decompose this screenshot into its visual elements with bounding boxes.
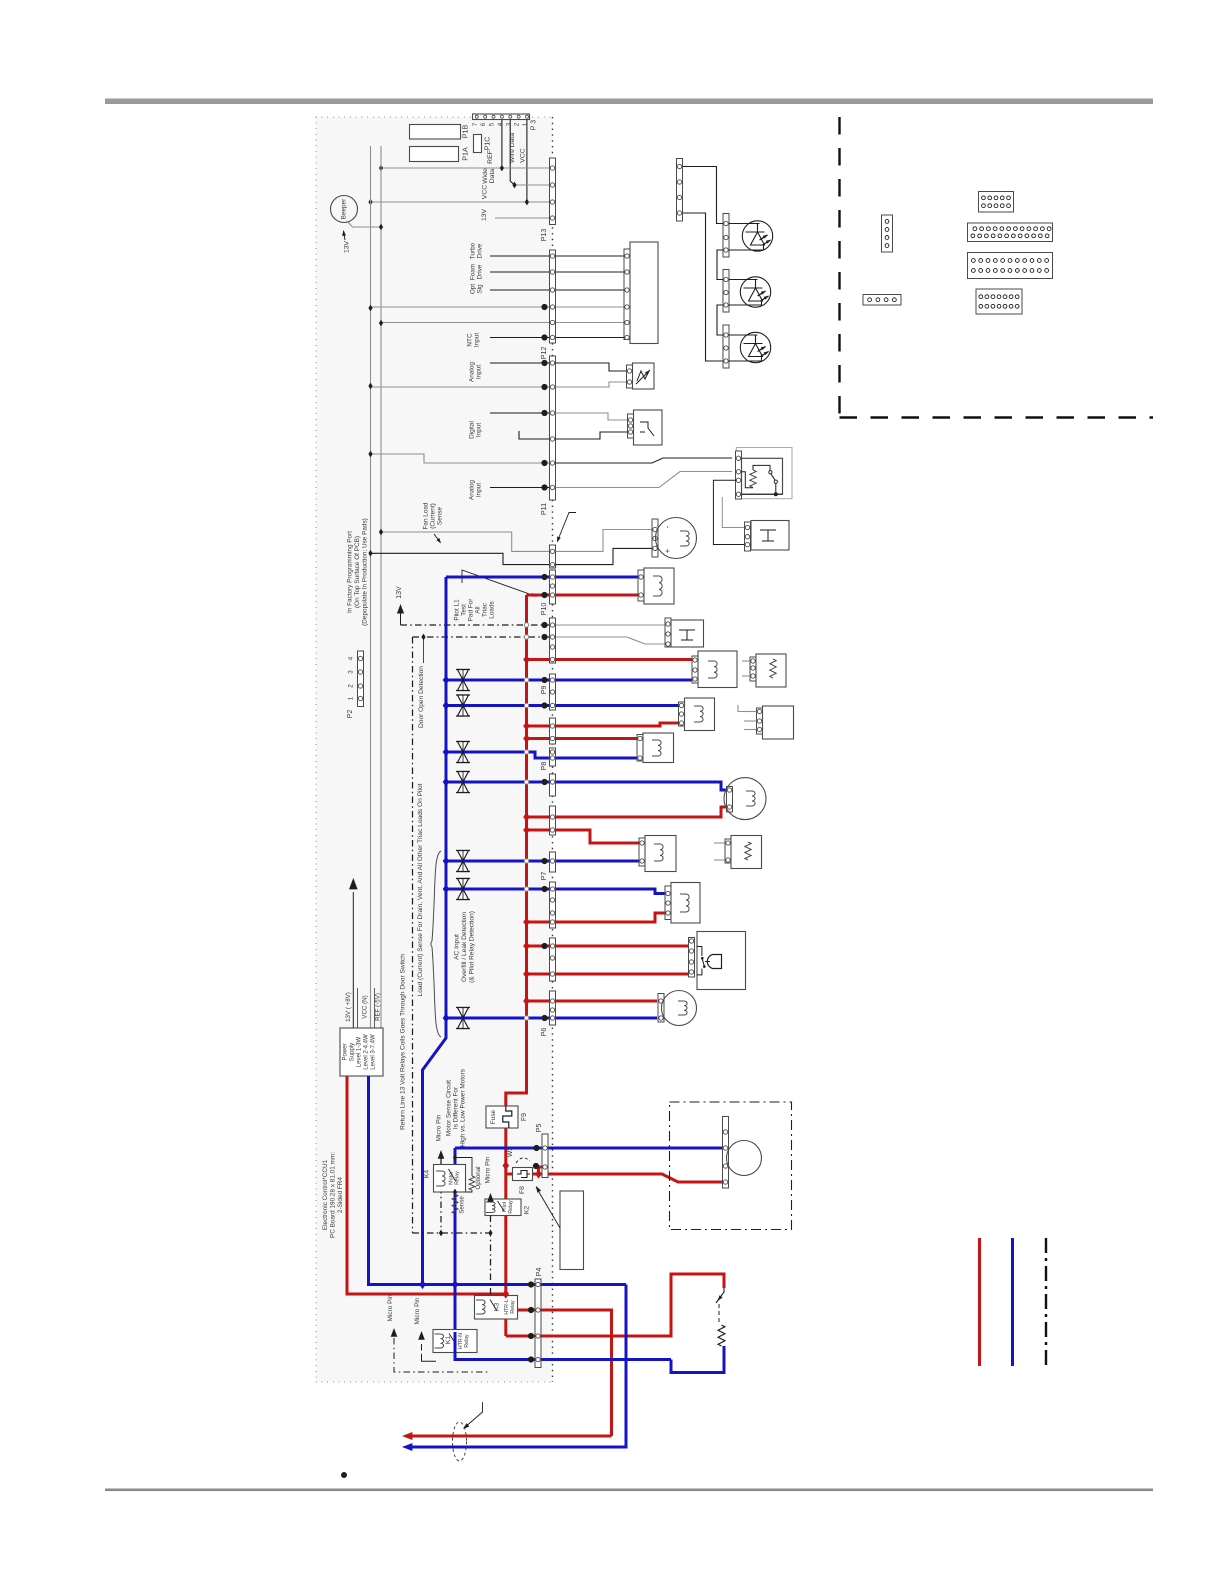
wire P4 pin3 to heater: [669, 1274, 724, 1336]
legend red line: [978, 1238, 981, 1366]
overfill pressure switch outer box: [736, 448, 792, 499]
wire VCC to P11 pin2: [371, 386, 550, 388]
wire Opt Sig row: [490, 289, 624, 291]
svg-text:VCC: VCC: [482, 185, 489, 199]
svg-text:13V: 13V: [396, 586, 403, 599]
svg-text:Test: Test: [461, 604, 468, 616]
svg-text:Input: Input: [476, 423, 483, 437]
svg-text:Fan Load: Fan Load: [423, 502, 430, 529]
svg-text:P4: P4: [534, 1268, 543, 1277]
wire overfill to level connector a: [713, 480, 744, 544]
dash-dot vertical micro pin line: [412, 637, 414, 1233]
overfill switch connector: [736, 451, 742, 499]
relay K2 Pilot Relay: [485, 1199, 521, 1216]
valve 6 connector: [665, 886, 671, 920]
beeper: [331, 196, 358, 223]
wire VCC to fan connector b: [371, 553, 550, 564]
svg-text:(Depopulate In Production; Use: (Depopulate In Production; Use Pads): [362, 518, 369, 626]
svg-text:Wire Data: Wire Data: [509, 133, 516, 163]
wire J pin4 to LED3: [683, 213, 723, 361]
svg-text:High vs. Low Power Motors: High vs. Low Power Motors: [460, 1069, 467, 1147]
triac T1: [456, 670, 470, 691]
svg-text:Sense: Sense: [437, 506, 444, 525]
wire analog input row 1: [490, 362, 550, 364]
red node K3: [503, 1289, 510, 1298]
legend dashed frame: [838, 117, 840, 418]
board edge dotted line (connector column): [552, 117, 554, 1382]
wire power supply red to K3: [347, 1076, 506, 1294]
curly brace triac loads: [431, 851, 441, 1037]
svg-text:1: 1: [348, 696, 355, 700]
svg-text:7: 7: [472, 122, 479, 126]
svg-text:Optional: Optional: [475, 1166, 482, 1189]
svg-text:P 3: P 3: [531, 120, 538, 130]
note box: [560, 1191, 584, 1270]
svg-text:P9: P9: [539, 686, 548, 695]
blue neutral bus: [423, 577, 447, 1285]
svg-text:(On Top Surface Of PCB): (On Top Surface Of PCB): [354, 536, 361, 608]
node junction P3-1: [525, 199, 529, 206]
wire blue row 889 with triac: [446, 889, 665, 894]
optional resistor branch: [455, 1158, 472, 1177]
level sensor lower box: [751, 521, 789, 551]
power supply box: [340, 1028, 383, 1076]
svg-text:Analog: Analog: [469, 362, 476, 382]
wire VCC to P12 pin4: [371, 306, 625, 308]
svg-text:VCC (N): VCC (N): [362, 995, 369, 1018]
wire P4 pin4 blue row: [455, 1358, 671, 1361]
triac T5: [456, 851, 470, 872]
svg-text:13V ( +8V): 13V ( +8V): [345, 992, 352, 1022]
valve 6 (coil): [671, 883, 700, 924]
svg-text:Input: Input: [476, 365, 483, 379]
level sensor connector: [665, 618, 671, 647]
blue exit wire: [412, 1285, 626, 1448]
sense resistor: [452, 1194, 458, 1214]
wire fan connector to fan motor a: [556, 530, 653, 552]
svg-text:Opt: Opt: [470, 284, 477, 295]
wire P10 blue row: [446, 576, 638, 579]
svg-text:Drive: Drive: [477, 243, 484, 258]
fan motor (+/-): [656, 518, 697, 559]
wire fan connector to fan motor b: [556, 548, 653, 564]
svg-text:Sense: Sense: [459, 1196, 466, 1214]
alt valve 2 box: [763, 706, 794, 739]
wire blue row 1018 with triac: [446, 1017, 657, 1020]
svg-text:Digital: Digital: [469, 421, 476, 439]
drain pump connector: [727, 787, 733, 813]
leader pilot L1: [462, 570, 535, 596]
dash-dot door switch row 1: [401, 624, 550, 626]
overfill resistor: [750, 470, 756, 488]
13V supply arrow line: [352, 892, 354, 1028]
level sensor box: [671, 620, 704, 647]
dash-dot micro pin line K2: [487, 1193, 494, 1202]
svg-text:K1: K1: [445, 1336, 452, 1345]
wire power supply blue to P4 pin1: [369, 1076, 627, 1285]
svg-text:PC Board 190.28 x 81.01 mm:: PC Board 190.28 x 81.01 mm:: [330, 1152, 337, 1238]
footnote bullet: [341, 1472, 347, 1478]
wire red row 738: [527, 737, 638, 740]
svg-text:Supply: Supply: [350, 1043, 356, 1061]
svg-text:Triac: Triac: [482, 602, 489, 617]
svg-text:+: +: [663, 548, 672, 553]
wire J pin1 to LED1: [683, 167, 723, 224]
svg-text:Sig: Sig: [477, 284, 484, 294]
wire P3 pin1 to node: [526, 120, 528, 200]
svg-text:Return Line 13 Volt Relays Coi: Return Line 13 Volt Relays Coils Goes Th…: [400, 954, 407, 1130]
svg-text:4: 4: [348, 656, 355, 660]
wire blue row 752 with triac: [446, 752, 637, 758]
svg-text:Micro Pin: Micro Pin: [414, 1297, 421, 1324]
connector view 4-pin vertical: [882, 215, 893, 252]
connector view 4-pin horizontal: [863, 295, 901, 306]
svg-text:2: 2: [514, 122, 521, 126]
svg-text:K3: K3: [494, 1303, 501, 1312]
svg-text:P7: P7: [539, 872, 548, 881]
blue wire P5 row: [455, 1147, 723, 1150]
svg-text:Foam: Foam: [470, 264, 477, 280]
connector P1B: [410, 125, 461, 140]
pressure switch box: [634, 410, 663, 445]
LED 1 with connector: [723, 214, 729, 258]
svg-text:Input: Input: [474, 333, 481, 347]
svg-text:P1C: P1C: [483, 137, 492, 151]
wire VCC-WideData row to P13 pin1: [381, 167, 550, 169]
wire P11 to pressure switch b: [556, 432, 629, 439]
wire blue row 680 with triac: [446, 679, 692, 682]
red wire F8 to P5 and motor: [533, 1167, 546, 1174]
wire blue row 861 with triac: [446, 860, 639, 863]
valve 3 (coil): [685, 698, 715, 731]
svg-text:Door Open Detection: Door Open Detection: [418, 666, 425, 728]
wire row to P13 pin3: [371, 201, 550, 203]
alt valve 1 connector: [750, 657, 756, 681]
svg-text:Relay: Relay: [464, 1334, 470, 1348]
node junction P3-3: [500, 165, 504, 172]
fuse F8: [506, 1173, 513, 1176]
fan pad connector: [550, 545, 556, 568]
svg-text:Level 2-4.4W: Level 2-4.4W: [364, 1034, 370, 1070]
svg-text:Micro Pin: Micro Pin: [436, 1114, 443, 1141]
wire blue row 782 with triac: [446, 782, 726, 790]
leader cable marker: [464, 1402, 483, 1428]
svg-text:Overfill / Leak Detection: Overfill / Leak Detection: [461, 912, 468, 982]
cable marker dashed ellipse: [453, 1422, 467, 1461]
wire NTC row: [490, 337, 624, 339]
svg-text:Analog: Analog: [469, 480, 476, 500]
svg-text:3: 3: [348, 670, 355, 674]
motor unit circle: [727, 1141, 762, 1176]
wire blue row 705 with triac: [446, 704, 681, 707]
svg-text:P10: P10: [539, 603, 548, 616]
wire P3 pin2 to node: [510, 120, 514, 185]
CCU board outline (Electronic Control CCU1, dotted): [316, 117, 553, 1382]
alt valve 3 box with resistor: [731, 836, 762, 869]
wire P3 pin3 to node: [501, 120, 503, 165]
svg-text:P13: P13: [539, 229, 548, 242]
node door open detection: [421, 634, 425, 641]
svg-text:P12: P12: [539, 347, 548, 360]
svg-text:Fuse: Fuse: [490, 1109, 497, 1124]
svg-text:Turbo: Turbo: [470, 242, 477, 259]
heater resistor: [718, 1325, 725, 1346]
wire REF to fan connector a: [381, 532, 550, 551]
svg-text:13V: 13V: [481, 208, 488, 221]
alt valve 3 connector: [725, 839, 731, 863]
valve 2 (water valve coil): [698, 651, 737, 688]
wire red row 974: [527, 973, 690, 976]
wire Foam Drive row: [490, 271, 624, 273]
crossing rings on red bus: [524, 623, 528, 627]
wire red row 1001: [527, 1000, 658, 1003]
valve 1 connector: [638, 570, 644, 601]
svg-text:Relay: Relay: [455, 1171, 461, 1185]
wire P11 pin4 row: [519, 431, 550, 439]
svg-text:Micro Pin: Micro Pin: [485, 1156, 492, 1183]
triac T3: [456, 742, 470, 763]
connector J LED header: [677, 159, 683, 222]
connector view 11x2: [968, 253, 1053, 279]
svg-text:K2: K2: [524, 1206, 531, 1215]
pressure switch connector: [628, 414, 634, 438]
wire red row 817: [527, 807, 727, 817]
svg-text:2-Sided FR4: 2-Sided FR4: [337, 1177, 344, 1213]
wire analog row 2: [490, 487, 550, 489]
svg-text:Is Different For: Is Different For: [453, 1086, 460, 1129]
blue relay chain through K4 K1: [454, 1148, 457, 1332]
wire red row 946 AC input: [527, 945, 690, 948]
svg-text:2: 2: [348, 684, 355, 688]
triac T7: [456, 1008, 470, 1029]
AC input connector: [689, 938, 695, 978]
svg-text:REF: REF: [487, 150, 494, 164]
REF rail (gray bus 2): [380, 146, 382, 1028]
wire P11 to overfill switch b: [556, 472, 733, 488]
valve 2 connector: [692, 656, 698, 683]
svg-text:6: 6: [480, 122, 487, 126]
svg-text:In Factory Programming Port: In Factory Programming Port: [347, 531, 354, 613]
top gray rule: [105, 99, 1153, 105]
motor unit dash-dot box: [670, 1102, 792, 1230]
svg-text:P6: P6: [539, 1028, 548, 1037]
valve 5 connector: [639, 838, 645, 866]
pressure pump motor: [662, 991, 697, 1026]
svg-text:5: 5: [489, 122, 496, 126]
alt valve 1 box with resistor: [756, 654, 786, 687]
valve 4 connector: [637, 735, 643, 762]
svg-text:P8: P8: [539, 762, 548, 771]
svg-text:Relay: Relay: [508, 1200, 514, 1214]
fuse F9: [486, 1106, 518, 1128]
svg-text:K4: K4: [424, 1170, 431, 1179]
connector P1C: [474, 135, 482, 153]
wire P10 red row: [527, 594, 639, 597]
connector P3 header: [473, 114, 530, 120]
wire 13V to P13 pin4: [495, 217, 550, 219]
wire P11 to overfill switch a: [556, 458, 733, 463]
drain pump motor: [724, 778, 766, 820]
leader fan load: [434, 534, 440, 542]
P4 connector strip: [535, 1279, 541, 1368]
wire beeper to REF rail: [347, 221, 381, 227]
svg-text:W2: W2: [507, 1147, 514, 1157]
red junction at W2: [503, 1161, 510, 1170]
valve 3 connector: [679, 702, 685, 726]
svg-text:13V: 13V: [344, 240, 351, 253]
svg-text:Micro Pin: Micro Pin: [387, 1294, 394, 1321]
legend dash-dot line: [1045, 1238, 1047, 1366]
wire digital input row: [490, 412, 550, 414]
wire LED2 to LED3: [717, 305, 723, 335]
dash-dot level row 1 gray: [556, 624, 667, 626]
svg-text:Pilot L1: Pilot L1: [454, 599, 461, 621]
svg-text:Wide: Wide: [482, 168, 489, 184]
connector P1A: [410, 147, 459, 162]
power supply label columns: [357, 988, 359, 1028]
svg-text:F9: F9: [521, 1113, 528, 1121]
wire P11 to pressure switch a: [556, 413, 629, 420]
red line bus: [506, 595, 527, 1336]
user interface connector: [624, 249, 630, 340]
overfill switch inner box: [742, 458, 783, 494]
svg-text:Level 1-3W: Level 1-3W: [357, 1036, 363, 1067]
heater blue return: [671, 1346, 724, 1373]
pressure pump connector: [658, 994, 664, 1023]
svg-text:Drive: Drive: [477, 264, 484, 279]
triac T6: [456, 879, 470, 900]
wire P11 to thermistor a: [556, 363, 629, 371]
wire LED1 to LED2: [717, 250, 723, 280]
svg-text:P1B: P1B: [461, 125, 470, 139]
wire red bus to P4 pin3: [506, 1335, 669, 1338]
svg-text:1: 1: [522, 122, 529, 126]
svg-text:REF (-5V): REF (-5V): [375, 993, 382, 1021]
leader note to F8: [536, 1187, 560, 1228]
svg-text:Beeper: Beeper: [341, 198, 348, 219]
svg-text:P11: P11: [539, 503, 548, 515]
alt valve 2 connector: [757, 708, 763, 734]
thermistor connector: [627, 365, 633, 388]
wire overfill to level connector b: [722, 497, 744, 528]
svg-text:-: -: [663, 525, 672, 528]
triac T4: [456, 772, 470, 793]
relay K3 HTR-L: [475, 1296, 518, 1320]
valve 5 (coil): [645, 836, 676, 872]
wire VCC jog to P11 pin5: [371, 454, 550, 463]
svg-text:Input: Input: [476, 483, 483, 497]
relay K1 HTR-N: [433, 1330, 477, 1353]
fan motor connector: [652, 519, 658, 557]
leader test pad: [558, 513, 577, 542]
dash-dot micro pin line K4: [438, 1150, 445, 1159]
wire Turbo Drive row: [490, 255, 624, 257]
wire red row 726: [527, 723, 682, 726]
wire P11 to thermistor b: [556, 382, 629, 387]
connector P12: [550, 250, 556, 343]
red exit wire: [412, 1435, 612, 1438]
dash-dot door switch row 2: [413, 636, 550, 638]
valve 1 (water valve coil): [644, 568, 674, 604]
svg-text:F8: F8: [519, 1186, 526, 1194]
thermistor (NTC sensor) box: [633, 363, 655, 389]
VCC rail (gray bus 1): [370, 146, 372, 1028]
svg-text:Load (Current) Sense For Drain: Load (Current) Sense For Drain, Vent, An…: [417, 783, 424, 996]
wire red row 830: [527, 830, 640, 843]
legend blue line: [1011, 1238, 1014, 1366]
LED 3 with connector: [723, 325, 729, 368]
connector P13: [550, 158, 556, 225]
svg-text:P1A: P1A: [461, 147, 470, 161]
connector view 5x2: [979, 192, 1014, 213]
svg-text:AC Input: AC Input: [454, 934, 461, 960]
svg-text:P2: P2: [347, 710, 354, 719]
wire red row 922: [527, 913, 666, 922]
svg-text:Level 3-7.4W: Level 3-7.4W: [371, 1034, 377, 1070]
svg-text:All: All: [475, 606, 482, 613]
connector strips on board edge and stars: [550, 570, 556, 604]
svg-text:Relay: Relay: [510, 1300, 516, 1314]
connector P2: [358, 651, 364, 707]
relay K1 exit to P4 pin4: [455, 1332, 535, 1360]
motor unit connector: [723, 1117, 729, 1189]
svg-text:4: 4: [497, 122, 504, 126]
connector view 7x2: [976, 289, 1022, 314]
relay K4 Motor Relay: [434, 1165, 466, 1193]
dash-dot micro pin horizontal: [413, 1232, 491, 1234]
connector P5: [542, 1134, 548, 1178]
level sensor lower connector: [745, 522, 751, 551]
user interface board: [630, 242, 658, 344]
svg-text:Power: Power: [343, 1043, 349, 1060]
svg-text:NTC: NTC: [467, 333, 474, 347]
svg-text:Electronic Control*CCU1: Electronic Control*CCU1: [322, 1159, 329, 1230]
svg-text:Data: Data: [489, 169, 496, 184]
heater thermostat: [716, 1288, 724, 1303]
valve 4 (coil): [643, 733, 674, 763]
overfill switch contacts: [769, 471, 772, 474]
svg-text:P5: P5: [534, 1124, 543, 1133]
LED 2 with connector: [723, 270, 729, 313]
AC input box with chime: [697, 932, 746, 990]
connector P11: [550, 356, 556, 500]
svg-text:3: 3: [505, 122, 512, 126]
wire P4 pin2 red to exit: [518, 1310, 612, 1436]
junction dots on P4 pin1 row: [419, 1280, 426, 1289]
svg-text:Motor Sense Circuit: Motor Sense Circuit: [446, 1080, 453, 1136]
connector view 12x2: [968, 223, 1053, 242]
triac T2: [456, 695, 470, 716]
bottom gray rule: [105, 1489, 1153, 1492]
svg-text:(Current): (Current): [430, 503, 437, 529]
wire row to P13 pin2: [515, 184, 550, 186]
svg-text:(& Pilot Relay Detection): (& Pilot Relay Detection): [469, 911, 476, 983]
node junction P3-2: [512, 182, 516, 189]
wire REF to P12 pin5: [381, 322, 624, 324]
svg-text:Pad For: Pad For: [468, 598, 475, 622]
svg-text:Loads: Loads: [489, 601, 496, 618]
svg-text:VCC: VCC: [520, 148, 527, 162]
wire red row 659: [527, 658, 693, 661]
